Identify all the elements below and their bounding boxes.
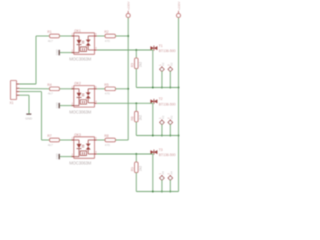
pins of OK3 bbox=[71, 139, 73, 141]
zero-cross block inside OK3 bbox=[80, 151, 86, 156]
wire bus row 3 bbox=[136, 191, 178, 193]
wire pad row1-2 to bus bbox=[169, 71, 171, 88]
supply symbol P+2 bbox=[176, 13, 180, 17]
triac inside OK2 bbox=[88, 88, 94, 90]
svg-text:+230V: +230V bbox=[177, 2, 181, 11]
connector X1 bbox=[11, 81, 17, 100]
svg-text:4k7: 4k7 bbox=[48, 39, 53, 43]
junction pad row1-2 bbox=[169, 87, 171, 89]
optocoupler OK2 bbox=[74, 86, 95, 108]
svg-text:GND: GND bbox=[55, 102, 59, 108]
svg-text:BT136-500: BT136-500 bbox=[159, 49, 176, 53]
LED inside OK1 bbox=[74, 35, 79, 37]
wire OK3 pin4 to triac T3 bbox=[97, 153, 153, 155]
wire triac T2 to bus bbox=[152, 103, 154, 135]
pins of OK2 bbox=[71, 88, 73, 90]
wire R8 to rail1 end bbox=[116, 139, 129, 141]
wire OK3 pin2 to GND bbox=[60, 156, 74, 158]
wire R9 to bus bbox=[135, 173, 137, 192]
pad row1-1 bbox=[160, 67, 165, 72]
ground GND (rotated) row 1 bbox=[58, 50, 60, 55]
svg-text:GND: GND bbox=[55, 153, 59, 159]
junction triac T2 / bus bbox=[152, 135, 154, 137]
wire pad row2-1 to bus bbox=[161, 124, 163, 135]
wire bus row 2 bbox=[136, 135, 178, 137]
junction R6 tap bbox=[135, 102, 137, 104]
junction pad row1-1 bbox=[161, 87, 163, 89]
junction pad row3-1 bbox=[161, 191, 163, 193]
supply symbol P+1 bbox=[126, 13, 130, 17]
svg-text:T1: T1 bbox=[159, 44, 163, 48]
svg-text:OK2: OK2 bbox=[74, 82, 81, 86]
zero-cross block inside OK1 bbox=[80, 47, 86, 52]
wire pad row3-1 to bus bbox=[161, 180, 163, 192]
wire pin4 v bbox=[28, 95, 30, 113]
optocoupler OK1 bbox=[74, 33, 95, 55]
svg-text:BT136-500: BT136-500 bbox=[159, 153, 176, 157]
wire pad row2-2 to bus bbox=[169, 124, 171, 135]
svg-text:X2: X2 bbox=[161, 62, 165, 66]
pad row1-2 bbox=[168, 67, 173, 72]
svg-text:R6: R6 bbox=[131, 116, 135, 120]
wire bus row 1 bbox=[136, 87, 178, 89]
svg-text:X3: X3 bbox=[170, 115, 174, 119]
wire pin2 to R4 bbox=[20, 88, 50, 90]
svg-text:R7: R7 bbox=[47, 134, 51, 138]
wire triac T1 to bus bbox=[152, 50, 154, 88]
svg-text:OK1: OK1 bbox=[74, 29, 81, 33]
junction rail2/bus2 bbox=[178, 135, 180, 137]
pad row3-2 bbox=[168, 176, 173, 181]
svg-text:MOC3063M: MOC3063M bbox=[69, 161, 92, 166]
svg-text:+230V: +230V bbox=[127, 2, 131, 11]
svg-text:R3: R3 bbox=[131, 63, 135, 67]
wire rail2 from P+2 bbox=[178, 18, 180, 192]
optocoupler OK3 bbox=[74, 137, 95, 159]
svg-text:2k2: 2k2 bbox=[139, 166, 143, 171]
wire pin1 h bbox=[20, 83, 37, 85]
wire to R3 bbox=[135, 50, 137, 58]
wire pin4 h bbox=[20, 94, 30, 96]
svg-text:R1: R1 bbox=[47, 30, 51, 34]
svg-text:MOC3063M: MOC3063M bbox=[69, 110, 92, 115]
pad row3-1 bbox=[160, 176, 165, 181]
junction rail1/row1 bbox=[127, 35, 129, 37]
wire OK1 pin6 to R2 bbox=[97, 35, 105, 37]
junction triac T1 / bus bbox=[152, 87, 154, 89]
junction rail2/bus1 bbox=[178, 87, 180, 89]
wire R7 to OK3 pin1 bbox=[60, 139, 74, 141]
wire pin3 to R7 bbox=[42, 139, 50, 141]
svg-text:470: 470 bbox=[105, 143, 110, 147]
ground GND (rotated) row 3 bbox=[58, 154, 60, 159]
junction R3 tap bbox=[135, 49, 137, 51]
junction R9 tap bbox=[135, 153, 137, 155]
wire R1 to OK1 pin1 bbox=[60, 35, 74, 37]
svg-text:OK3: OK3 bbox=[74, 133, 81, 137]
junction triac T3 / bus bbox=[152, 191, 154, 193]
wire OK3 pin6 to R8 bbox=[97, 139, 105, 141]
wire OK2 pin4 to triac T2 bbox=[97, 102, 153, 104]
wire pin3 v bbox=[41, 92, 43, 140]
svg-text:T2: T2 bbox=[159, 97, 163, 101]
svg-text:X1: X1 bbox=[10, 101, 14, 105]
triac inside OK1 bbox=[88, 35, 94, 37]
wire OK2 pin6 to R5 bbox=[97, 88, 105, 90]
wire OK1 pin2 to GND bbox=[60, 52, 74, 54]
svg-text:R4: R4 bbox=[47, 83, 51, 87]
wire R2 to rail1 bbox=[116, 35, 129, 37]
wire OK2 pin2 to GND bbox=[60, 105, 74, 107]
svg-text:R9: R9 bbox=[131, 167, 135, 171]
junction pad row2-1 bbox=[161, 135, 163, 137]
resistor R4 bbox=[50, 87, 60, 91]
svg-text:R5: R5 bbox=[104, 83, 108, 87]
wire pin1 to R1 bbox=[36, 35, 50, 37]
pad row2-1 bbox=[160, 120, 165, 125]
svg-text:X4: X4 bbox=[161, 171, 165, 175]
wire to R9 bbox=[135, 154, 137, 162]
svg-text:4k7: 4k7 bbox=[48, 92, 53, 96]
pad row2-2 bbox=[168, 120, 173, 125]
ground GND under connector bbox=[26, 113, 31, 115]
wire OK1 pin4 to triac T1 bbox=[97, 49, 153, 51]
wire pad row3-2 to bus bbox=[169, 180, 171, 192]
pins of OK1 bbox=[71, 35, 73, 37]
junction pad row3-2 bbox=[169, 191, 171, 193]
triac inside OK3 bbox=[88, 139, 94, 141]
svg-text:4k7: 4k7 bbox=[48, 143, 53, 147]
wire R4 to OK2 pin1 bbox=[60, 88, 74, 90]
wire rail1 from P+1 bbox=[127, 18, 129, 140]
wire triac T3 to bus bbox=[152, 154, 154, 192]
svg-text:X2: X2 bbox=[170, 62, 174, 66]
svg-text:R2: R2 bbox=[104, 30, 108, 34]
wire pin1 v bbox=[35, 36, 37, 84]
svg-text:2k2: 2k2 bbox=[139, 115, 143, 120]
svg-text:R8: R8 bbox=[104, 134, 108, 138]
wire R6 to bus bbox=[135, 122, 137, 136]
wire R3 to bus bbox=[135, 69, 137, 88]
LED inside OK2 bbox=[74, 88, 79, 90]
ground GND (rotated) row 2 bbox=[58, 103, 60, 108]
svg-text:470: 470 bbox=[105, 92, 110, 96]
svg-text:X4: X4 bbox=[170, 171, 174, 175]
svg-text:X3: X3 bbox=[161, 115, 165, 119]
junction rail1/row2 bbox=[127, 88, 129, 90]
wire pad row1-1 to bus bbox=[161, 71, 163, 88]
LED inside OK3 bbox=[74, 139, 79, 141]
junction pad row2-2 bbox=[169, 135, 171, 137]
svg-text:MOC3063M: MOC3063M bbox=[69, 57, 92, 62]
resistor R1 bbox=[50, 34, 60, 38]
resistor R7 bbox=[50, 138, 60, 142]
svg-text:T3: T3 bbox=[159, 148, 163, 152]
svg-text:BT136-500: BT136-500 bbox=[159, 102, 176, 106]
svg-text:470: 470 bbox=[105, 39, 110, 43]
wire pin3 h bbox=[20, 91, 42, 93]
wire to R6 bbox=[135, 103, 137, 111]
svg-text:2k2: 2k2 bbox=[139, 62, 143, 67]
svg-text:GND: GND bbox=[25, 116, 33, 120]
svg-text:GND: GND bbox=[55, 49, 59, 55]
wire R5 to rail1 bbox=[116, 88, 129, 90]
zero-cross block inside OK2 bbox=[80, 100, 86, 105]
